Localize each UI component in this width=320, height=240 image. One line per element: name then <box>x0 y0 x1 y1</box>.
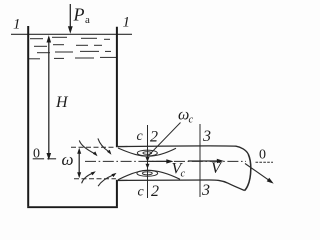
arrow omega (orifice width, double-headed) <box>78 150 80 177</box>
jet lower boundary <box>118 180 244 190</box>
jet end face <box>244 154 250 191</box>
tank bottom <box>27 206 118 208</box>
tank right wall lower (below orifice) <box>116 180 118 207</box>
streamline S2 (upper) <box>98 138 109 151</box>
jet upper boundary <box>118 146 248 154</box>
orifice top edge extension (dashed) <box>71 146 116 148</box>
tank right wall upper (above orifice) <box>116 27 118 147</box>
vena contracta ellipse (lower) <box>137 170 158 176</box>
svg-text:V: V <box>211 160 223 177</box>
svg-text:3: 3 <box>201 182 210 199</box>
arrow Vc (velocity at contracted section) <box>149 160 172 162</box>
svg-text:2: 2 <box>150 129 158 146</box>
arrow Pa (atmospheric pressure) <box>69 4 71 28</box>
svg-text:c: c <box>181 169 186 180</box>
section line 2-2 <box>147 125 149 198</box>
vena contracta ellipse (upper) <box>137 150 157 156</box>
tank left wall <box>27 26 29 206</box>
svg-text:ω: ω <box>62 150 74 169</box>
jet exit arrow <box>245 164 271 182</box>
section line 1-1 (free surface) <box>11 33 132 35</box>
streamline B1 (lower) <box>82 173 93 183</box>
centerline 0-0 (dash-dot axis) <box>85 160 246 162</box>
svg-text:1: 1 <box>123 15 131 31</box>
svg-text:3: 3 <box>202 128 211 145</box>
svg-text:a: a <box>85 14 90 26</box>
contraction arc (lower) <box>118 170 180 180</box>
svg-text:2: 2 <box>151 183 159 200</box>
arrow V (jet velocity) <box>188 160 222 162</box>
svg-text:1: 1 <box>13 17 21 33</box>
svg-text:P: P <box>73 5 85 25</box>
section line 3-3 <box>199 124 201 197</box>
svg-text:c: c <box>138 185 145 200</box>
contraction arc (upper) <box>118 148 176 156</box>
svg-text:0: 0 <box>259 148 266 163</box>
arrow H (head, double-headed) <box>48 37 50 159</box>
leader from omega_c to vena contracta <box>149 123 181 156</box>
svg-text:c: c <box>137 129 144 144</box>
svg-text:c: c <box>189 115 194 126</box>
svg-text:H: H <box>55 94 69 111</box>
streamline S1 (upper) <box>79 140 94 153</box>
streamline B2 (lower) <box>98 175 113 186</box>
orifice bottom edge extension (dashed) <box>74 178 116 180</box>
water surface dashes <box>29 37 116 59</box>
